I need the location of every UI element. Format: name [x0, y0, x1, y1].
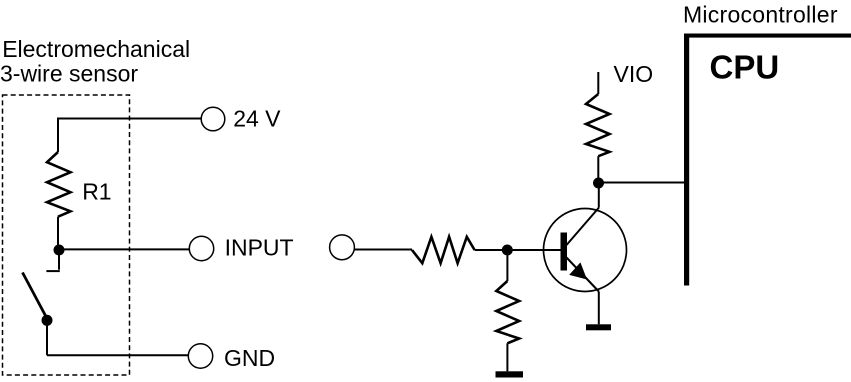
- svg-text:R1: R1: [82, 179, 111, 205]
- svg-text:24 V: 24 V: [233, 106, 281, 132]
- svg-text:Electromechanical: Electromechanical: [2, 36, 190, 62]
- svg-text:VIO: VIO: [614, 61, 654, 87]
- svg-text:Microcontroller: Microcontroller: [683, 2, 838, 28]
- svg-text:INPUT: INPUT: [225, 235, 294, 261]
- svg-text:3-wire sensor: 3-wire sensor: [0, 61, 138, 87]
- svg-text:GND: GND: [224, 345, 275, 371]
- svg-text:CPU: CPU: [710, 49, 780, 86]
